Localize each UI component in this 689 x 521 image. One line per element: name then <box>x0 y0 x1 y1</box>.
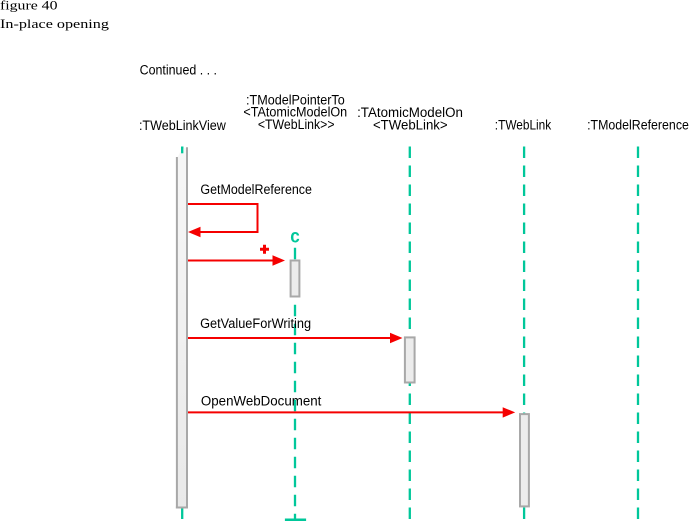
header :TWebLinkView <box>139 118 226 133</box>
lifeline :TModelPointerTo (created later, dashed from creation point) <box>294 248 296 519</box>
activation bar on :TWebLink <box>520 414 529 506</box>
lifeline :TWebLinkView (dashed) <box>181 147 183 520</box>
svg-text:GetModelReference: GetModelReference <box>200 182 312 197</box>
svg-text:GetValueForWriting: GetValueForWriting <box>200 316 311 331</box>
activation bar on :TModelPointerTo <box>291 261 300 297</box>
header :TAtomicModelOn<TWebLink> <box>357 105 463 133</box>
lifeline :TModelPointerTo bottom termination T-bar <box>285 519 306 521</box>
message label OpenWebDocument <box>201 393 322 408</box>
lifeline :TWebLink (dashed) <box>523 147 525 520</box>
figure caption line 2: "In-place opening" <box>0 16 110 31</box>
lifeline :TModelReference (dashed) <box>637 147 639 520</box>
svg-text:OpenWebDocument: OpenWebDocument <box>201 393 322 408</box>
header :TModelReference <box>587 118 689 133</box>
lifeline :TAtomicModelOn<TWebLink> (dashed) <box>409 147 411 520</box>
activation bar on :TAtomicModelOn <box>405 337 415 382</box>
message arrow OpenWebDocument <box>188 407 515 417</box>
label "Continued . . ." <box>140 63 217 78</box>
svg-text:figure 40: figure 40 <box>0 0 58 13</box>
svg-text::TWebLink: :TWebLink <box>495 118 552 133</box>
svg-text::TModelReference: :TModelReference <box>587 118 689 133</box>
message label GetValueForWriting <box>200 316 311 331</box>
creation message arrow to :TModelPointerTo <box>188 255 285 265</box>
svg-text:c: c <box>290 227 300 248</box>
self message arrow GetModelReference <box>188 204 258 237</box>
svg-text:Continued . . .: Continued . . . <box>140 63 217 78</box>
svg-text::TWebLinkView: :TWebLinkView <box>139 118 226 133</box>
header :TWebLink <box>495 118 552 133</box>
message label GetModelReference <box>200 182 312 197</box>
plus sign annotation <box>260 245 269 254</box>
svg-text:In-place opening: In-place opening <box>0 16 110 31</box>
creation tick of :TWebLinkView lifeline over bar top <box>181 147 183 154</box>
activation bar on :TWebLinkView <box>176 147 188 508</box>
header :TModelPointerTo<TAtomicModelOn<TWebLink>> <box>243 92 347 132</box>
svg-text:<TWebLink>>: <TWebLink>> <box>258 117 335 132</box>
figure caption line 1: "figure 40" <box>0 0 58 13</box>
svg-text:<TWebLink>: <TWebLink> <box>373 118 448 133</box>
message arrow GetValueForWriting <box>188 333 403 343</box>
creation letter c on :TModelPointerTo <box>290 227 300 248</box>
